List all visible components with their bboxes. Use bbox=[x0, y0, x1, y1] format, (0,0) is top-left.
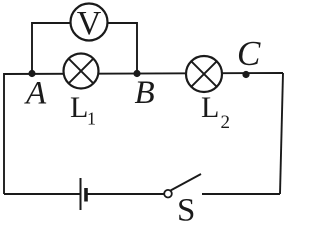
svg-text:A: A bbox=[24, 76, 47, 112]
svg-text:B: B bbox=[135, 75, 155, 111]
label S bbox=[177, 193, 195, 229]
battery bbox=[81, 178, 87, 210]
wire bottom left to battery bbox=[4, 193, 80, 195]
wire left side bbox=[3, 73, 5, 194]
label A bbox=[24, 76, 47, 112]
svg-text:S: S bbox=[177, 193, 195, 222]
lamp L1 bbox=[64, 54, 99, 89]
wire top side A-B-C bbox=[4, 73, 283, 74]
svg-text:V: V bbox=[77, 5, 102, 42]
wire voltmeter branch right (to node B) bbox=[108, 23, 137, 74]
wire right side bbox=[280, 73, 283, 194]
voltmeter V bbox=[71, 4, 108, 43]
node B bbox=[133, 70, 140, 77]
wire battery to switch bbox=[86, 193, 164, 195]
node C bbox=[242, 71, 249, 78]
svg-text:L: L bbox=[201, 91, 219, 124]
label B bbox=[135, 75, 155, 111]
lamp L2 bbox=[186, 56, 222, 92]
svg-text:C: C bbox=[237, 34, 261, 73]
node A bbox=[28, 70, 35, 77]
label L2 bbox=[201, 91, 230, 133]
label L1 bbox=[70, 91, 96, 129]
svg-text:1: 1 bbox=[87, 109, 96, 129]
svg-text:2: 2 bbox=[221, 112, 231, 133]
svg-text:L: L bbox=[70, 91, 88, 124]
label C bbox=[237, 34, 261, 73]
switch S bbox=[164, 174, 201, 198]
wire voltmeter branch left (node A up) bbox=[32, 23, 70, 74]
wire switch to bottom right corner bbox=[202, 193, 280, 195]
